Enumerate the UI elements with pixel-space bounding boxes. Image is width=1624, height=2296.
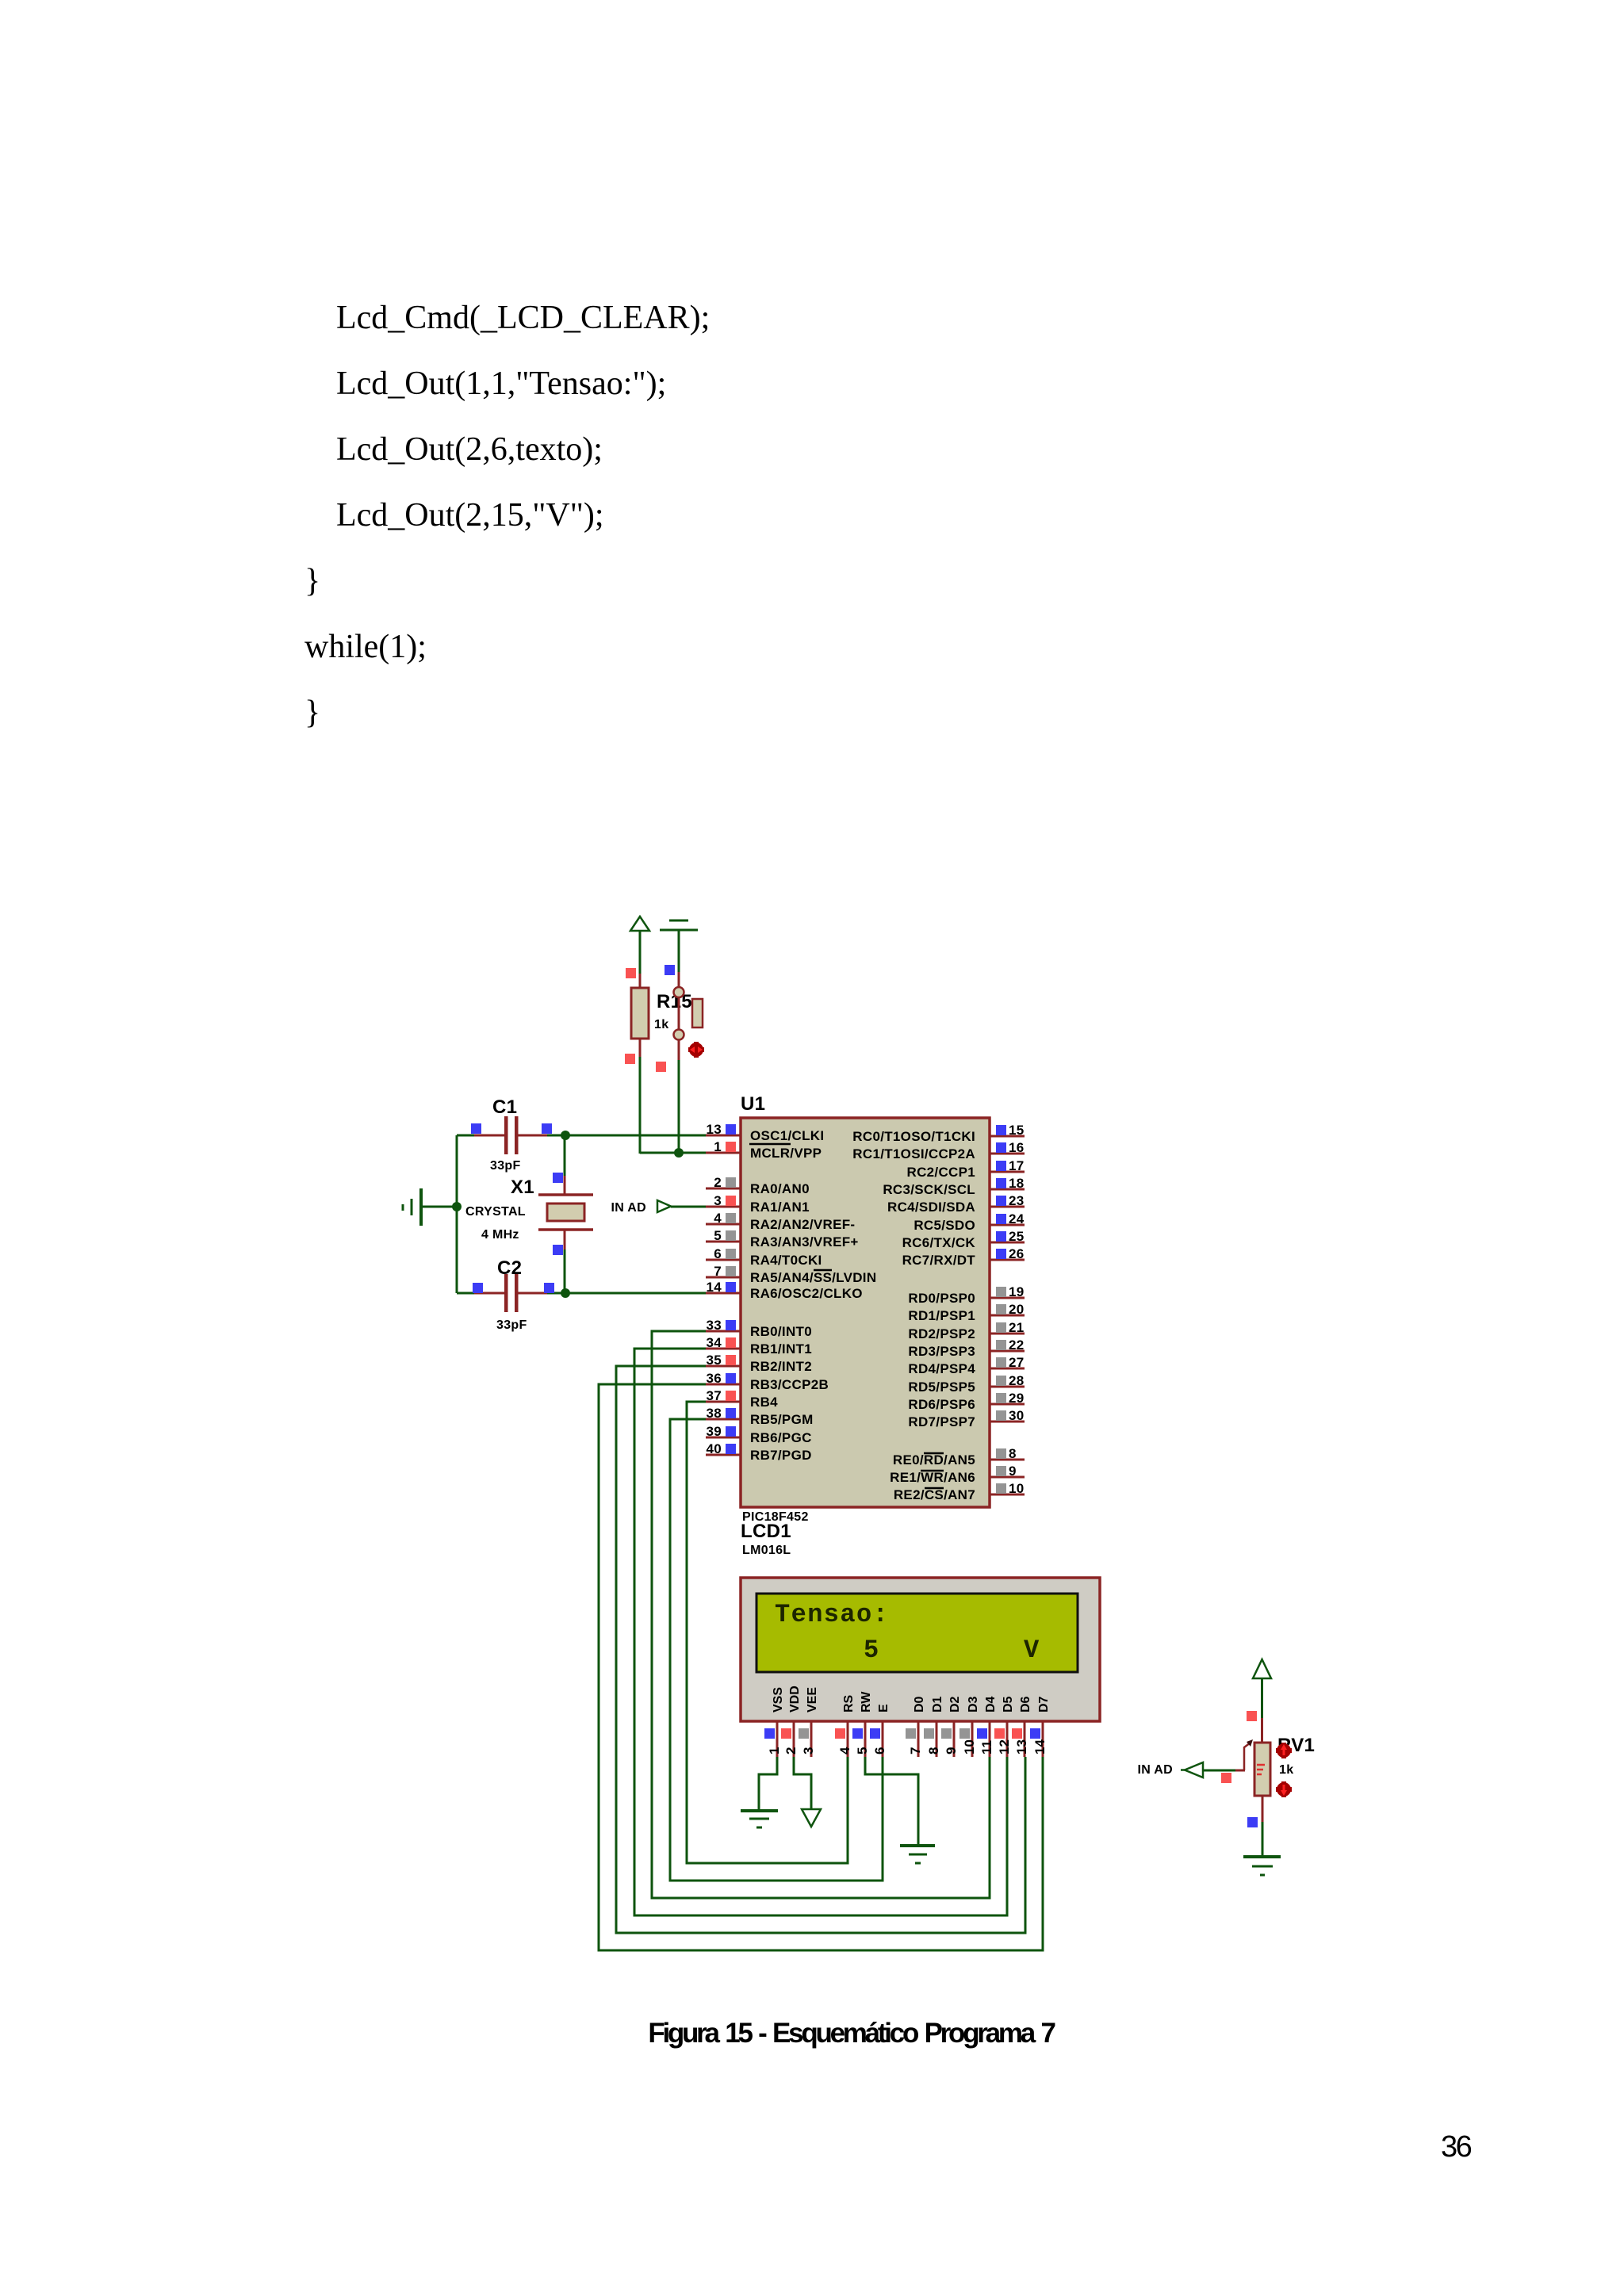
svg-text:D6: D6 <box>1019 1696 1032 1712</box>
wire OSC2 net (left rail to C2 to U1 pin 14) <box>457 1283 706 1293</box>
svg-text:RD5/PSP5: RD5/PSP5 <box>908 1380 975 1395</box>
LCD display text "5" <box>864 1636 880 1665</box>
LCD1 pin 5 (RW) <box>852 1691 873 1757</box>
LCD1 pin 14 (D7) <box>1030 1696 1051 1757</box>
svg-text:RW: RW <box>860 1691 873 1712</box>
U1 pin 20 (RD1/PSP1) <box>908 1302 1025 1323</box>
svg-text:D7: D7 <box>1037 1696 1051 1712</box>
svg-text:RA4/T0CKI: RA4/T0CKI <box>750 1253 822 1268</box>
svg-text:34: 34 <box>706 1335 722 1350</box>
label CRYSTAL <box>465 1205 526 1219</box>
svg-text:18: 18 <box>1009 1176 1025 1191</box>
svg-text:D5: D5 <box>1002 1696 1015 1712</box>
svg-text:2: 2 <box>714 1175 722 1190</box>
svg-text:RB3/CCP2B: RB3/CCP2B <box>750 1377 829 1392</box>
U1 pin 28 (RD5/PSP5) <box>908 1373 1025 1395</box>
crystal X1 <box>538 1176 593 1249</box>
svg-text:RA3/AN3/VREF+: RA3/AN3/VREF+ <box>750 1234 859 1249</box>
LCD1 pin 13 (D6) <box>1012 1696 1032 1757</box>
svg-text:29: 29 <box>1009 1391 1025 1406</box>
U1 pin 35 (RB2/INT2) <box>706 1353 812 1374</box>
svg-text:10: 10 <box>1009 1481 1025 1496</box>
svg-text:9: 9 <box>944 1747 959 1755</box>
svg-text:VSS: VSS <box>772 1687 785 1712</box>
wire ground to left rail <box>423 1206 457 1208</box>
LCD display text "V" <box>1024 1636 1040 1665</box>
svg-text:RE0/RD/AN5: RE0/RD/AN5 <box>893 1452 975 1468</box>
LCD1 pin 6 (E) <box>870 1704 891 1757</box>
power symbol +V (above RV1) <box>1253 1659 1271 1678</box>
svg-text:1k: 1k <box>1279 1763 1293 1777</box>
svg-text:20: 20 <box>1009 1302 1025 1317</box>
svg-text:33pF: 33pF <box>496 1318 527 1332</box>
svg-text:17: 17 <box>1009 1158 1025 1173</box>
svg-text:RC1/T1OSI/CCP2A: RC1/T1OSI/CCP2A <box>852 1146 975 1161</box>
svg-text:RC4/SDI/SDA: RC4/SDI/SDA <box>887 1200 975 1215</box>
wire power arrow to R15 top <box>626 931 640 978</box>
U1 pin 27 (RD4/PSP4) <box>908 1355 1025 1376</box>
wire IN AD terminal to RV1 wiper <box>1203 1770 1245 1783</box>
svg-text:5: 5 <box>714 1228 722 1243</box>
U1 pin 30 (RD7/PSP7) <box>908 1408 1025 1429</box>
svg-text:D2: D2 <box>948 1696 962 1712</box>
svg-text:RE1/WR/AN6: RE1/WR/AN6 <box>890 1470 975 1485</box>
svg-text:4 MHz: 4 MHz <box>481 1228 519 1242</box>
svg-text:RB7/PGD: RB7/PGD <box>750 1448 812 1463</box>
U1 pin 3 (RA1/AN1) <box>706 1193 810 1215</box>
LCD1 pin 8 (D1) <box>924 1696 944 1757</box>
svg-text:1: 1 <box>714 1139 722 1154</box>
svg-text:5: 5 <box>855 1747 870 1755</box>
U1 pin 22 (RD3/PSP3) <box>908 1337 1025 1359</box>
wire RS net (LCD pin4 to U1 RB4) <box>687 1402 848 1863</box>
svg-text:RC3/SCK/SCL: RC3/SCK/SCL <box>883 1182 975 1197</box>
svg-text:28: 28 <box>1009 1373 1025 1388</box>
wire left rail (C1 to C2) <box>456 1135 458 1293</box>
power rail bar symbol (above button) <box>660 920 698 930</box>
svg-text:13: 13 <box>1014 1739 1029 1755</box>
svg-text:21: 21 <box>1009 1320 1025 1335</box>
svg-text:6: 6 <box>872 1747 887 1755</box>
ground symbol (RW) <box>900 1846 935 1863</box>
wire IN AD to U1 pin 3 <box>671 1206 706 1208</box>
svg-text:3: 3 <box>714 1193 722 1208</box>
svg-text:RA5/AN4/SS/LVDIN: RA5/AN4/SS/LVDIN <box>750 1270 876 1285</box>
ground symbol (VSS) <box>741 1811 778 1827</box>
wire MCLR net to U1 pin 1 <box>640 1152 706 1154</box>
svg-text:V: V <box>1024 1636 1040 1665</box>
value 1k (R15) <box>654 1018 668 1031</box>
wire RV1 bottom to ground <box>1247 1796 1262 1857</box>
label X1 <box>511 1177 534 1198</box>
value 1k (RV1) <box>1279 1763 1293 1777</box>
LCD1 pin 1 (VSS) <box>764 1687 785 1757</box>
svg-text:4: 4 <box>714 1211 722 1226</box>
svg-text:10: 10 <box>962 1739 977 1755</box>
power symbol +V (above R15) <box>630 916 649 931</box>
svg-text:15: 15 <box>1009 1123 1025 1138</box>
U1 pin 7 (RA5/AN4/SS/LVDIN) <box>706 1264 876 1285</box>
svg-text:D4: D4 <box>984 1696 998 1712</box>
LCD1 pin 3 (VEE) <box>799 1687 819 1757</box>
pot RV1 up-adjust starburst <box>1276 1743 1292 1758</box>
svg-text:RC7/RX/DT: RC7/RX/DT <box>902 1253 976 1268</box>
svg-text:RD1/PSP1: RD1/PSP1 <box>908 1308 975 1323</box>
svg-text:RD0/PSP0: RD0/PSP0 <box>908 1291 975 1306</box>
U1 pin 37 (RB4) <box>706 1388 778 1410</box>
svg-text:RA1/AN1: RA1/AN1 <box>750 1200 810 1215</box>
svg-text:RD4/PSP4: RD4/PSP4 <box>908 1361 975 1376</box>
U1 pin 15 (RC0/T1OSO/T1CKI) <box>852 1123 1025 1144</box>
label PIC18F452 <box>742 1510 809 1524</box>
button actuator starburst <box>688 1042 704 1058</box>
wire D4 net (LCD pin11 to U1 RB0) <box>652 1331 990 1898</box>
wire button bottom to MCLR net <box>656 1060 679 1154</box>
LCD1 pin 10 (D3) <box>959 1696 980 1757</box>
svg-text:35: 35 <box>706 1353 722 1368</box>
svg-text:7: 7 <box>714 1264 722 1279</box>
potentiometer RV1 <box>1244 1739 1270 1796</box>
svg-text:IN AD: IN AD <box>611 1201 646 1215</box>
LCD1 pin 9 (D2) <box>941 1696 962 1757</box>
U1 pin 21 (RD2/PSP2) <box>908 1320 1025 1341</box>
svg-text:RC5/SDO: RC5/SDO <box>913 1218 975 1233</box>
wire VDD (LCD pin2) to power <box>794 1757 811 1810</box>
label R15 <box>657 991 692 1012</box>
svg-text:39: 39 <box>706 1424 722 1439</box>
push-button (reset) <box>674 972 703 1060</box>
label RV1 <box>1277 1735 1315 1756</box>
pot RV1 down-adjust starburst <box>1276 1781 1292 1797</box>
svg-text:X1: X1 <box>511 1177 534 1198</box>
svg-text:11: 11 <box>979 1740 994 1755</box>
junction: rail / ground <box>452 1202 462 1211</box>
U1 pin 34 (RB1/INT1) <box>706 1335 812 1357</box>
wire VSS (LCD pin1) to ground <box>759 1757 777 1811</box>
label C2 <box>497 1257 522 1279</box>
svg-text:RB5/PGM: RB5/PGM <box>750 1412 814 1427</box>
capacitor C2 <box>474 1274 547 1312</box>
svg-text:36: 36 <box>706 1371 722 1386</box>
wire X1 top stub to OSC1 <box>553 1135 565 1183</box>
label C1 <box>492 1096 517 1118</box>
svg-text:RD2/PSP2: RD2/PSP2 <box>908 1326 975 1341</box>
svg-text:3: 3 <box>801 1747 816 1755</box>
svg-text:27: 27 <box>1009 1355 1025 1370</box>
label LM016L <box>742 1544 791 1557</box>
svg-text:RB2/INT2: RB2/INT2 <box>750 1359 812 1374</box>
label IN AD (top) <box>611 1201 646 1215</box>
svg-text:RB1/INT1: RB1/INT1 <box>750 1341 812 1357</box>
U1 pin 6 (RA4/T0CKI) <box>706 1246 822 1268</box>
svg-text:RD3/PSP3: RD3/PSP3 <box>908 1344 975 1359</box>
label U1 <box>741 1093 765 1115</box>
svg-text:RA6/OSC2/CLKO: RA6/OSC2/CLKO <box>750 1286 863 1301</box>
LCD1 pin 12 (D5) <box>994 1696 1015 1757</box>
U1 pin 33 (RB0/INT0) <box>706 1318 812 1339</box>
svg-text:8: 8 <box>926 1747 941 1755</box>
svg-text:CRYSTAL: CRYSTAL <box>465 1205 526 1219</box>
IC U1 PIC18F452 body <box>741 1118 990 1507</box>
svg-text:12: 12 <box>997 1739 1012 1755</box>
U1 pin 2 (RA0/AN0) <box>706 1175 810 1196</box>
svg-text:22: 22 <box>1009 1337 1025 1353</box>
svg-text:38: 38 <box>706 1406 722 1421</box>
wire D6 net (LCD pin13 to U1 RB2) <box>616 1366 1025 1933</box>
svg-text:24: 24 <box>1009 1211 1025 1226</box>
LCD1 pin 7 (D0) <box>906 1696 926 1757</box>
svg-text:4: 4 <box>837 1747 852 1755</box>
U1 pin 1 (MCLR/VPP) <box>706 1139 822 1161</box>
svg-text:8: 8 <box>1009 1446 1017 1461</box>
svg-text:RD7/PSP7: RD7/PSP7 <box>908 1414 975 1429</box>
svg-text:6: 6 <box>714 1246 722 1261</box>
svg-text:RC6/TX/CK: RC6/TX/CK <box>902 1235 976 1250</box>
wire RW (LCD pin5) to ground <box>865 1757 918 1846</box>
junction: OSC2 / X1 bottom <box>561 1288 570 1298</box>
U1 pin 40 (RB7/PGD) <box>706 1441 812 1463</box>
svg-text:RA0/AN0: RA0/AN0 <box>750 1181 810 1196</box>
svg-text:Tensao:: Tensao: <box>775 1600 889 1629</box>
junction: OSC1 / X1 top <box>561 1131 570 1140</box>
terminal IN AD (from pot wiper) <box>1181 1762 1203 1777</box>
ground symbol (RV1) <box>1243 1857 1281 1875</box>
value 33pF (C1) <box>490 1159 521 1173</box>
U1 pin 39 (RB6/PGC) <box>706 1424 812 1445</box>
svg-text:RD6/PSP6: RD6/PSP6 <box>908 1397 975 1412</box>
value 33pF (C2) <box>496 1318 527 1332</box>
U1 pin 4 (RA2/AN2/VREF-) <box>706 1211 855 1232</box>
svg-text:IN AD: IN AD <box>1138 1763 1173 1777</box>
wire D5 net (LCD pin12 to U1 RB1) <box>634 1349 1007 1915</box>
LCD1 pin 11 (D4) <box>977 1696 998 1757</box>
svg-text:U1: U1 <box>741 1093 765 1115</box>
U1 pin 13 (OSC1/CLKI) <box>706 1122 824 1143</box>
svg-text:OSC1/CLKI: OSC1/CLKI <box>750 1128 824 1143</box>
ground symbol (crystal rail) <box>403 1188 421 1226</box>
svg-text:23: 23 <box>1009 1193 1025 1208</box>
LCD display text "Tensao:" <box>775 1600 889 1629</box>
junction: MCLR node <box>674 1148 684 1158</box>
svg-text:14: 14 <box>706 1280 722 1295</box>
svg-text:1k: 1k <box>654 1018 668 1031</box>
svg-text:RB4: RB4 <box>750 1395 778 1410</box>
svg-text:13: 13 <box>706 1122 722 1137</box>
value 4 MHz (X1) <box>481 1228 519 1242</box>
svg-text:VDD: VDD <box>788 1686 802 1712</box>
svg-text:1: 1 <box>767 1747 782 1755</box>
svg-text:VEE: VEE <box>806 1687 819 1712</box>
svg-text:LM016L: LM016L <box>742 1544 791 1557</box>
svg-text:30: 30 <box>1009 1408 1025 1423</box>
svg-text:D0: D0 <box>913 1696 926 1712</box>
wire power to RV1 top <box>1247 1678 1262 1743</box>
LCD1 pin 2 (VDD) <box>781 1686 802 1757</box>
U1 pin 14 (RA6/OSC2/CLKO) <box>706 1280 863 1301</box>
svg-text:RC0/T1OSO/T1CKI: RC0/T1OSO/T1CKI <box>852 1129 975 1144</box>
svg-text:16: 16 <box>1009 1140 1025 1155</box>
U1 pin 36 (RB3/CCP2B) <box>706 1371 829 1392</box>
U1 pin 26 (RC7/RX/DT) <box>902 1246 1025 1268</box>
resistor R15 <box>631 974 649 1057</box>
svg-text:40: 40 <box>706 1441 722 1456</box>
svg-text:33pF: 33pF <box>490 1159 521 1173</box>
U1 pin 18 (RC3/SCK/SCL) <box>883 1176 1025 1197</box>
capacitor C1 <box>474 1116 547 1154</box>
svg-text:C2: C2 <box>497 1257 522 1279</box>
U1 pin 9 (RE1/WR/AN6) <box>890 1464 1025 1485</box>
U1 pin 16 (RC1/T1OSI/CCP2A) <box>852 1140 1025 1161</box>
label LCD1 <box>741 1521 791 1542</box>
svg-text:14: 14 <box>1032 1739 1048 1755</box>
power symbol down-arrow (VDD) <box>802 1809 821 1827</box>
svg-text:RB6/PGC: RB6/PGC <box>750 1430 812 1445</box>
svg-text:RA2/AN2/VREF-: RA2/AN2/VREF- <box>750 1217 855 1232</box>
wire E net (LCD pin6 to U1 RB5) <box>670 1419 883 1881</box>
U1 pin 17 (RC2/CCP1) <box>907 1158 1025 1180</box>
svg-text:7: 7 <box>908 1747 923 1755</box>
svg-text:D3: D3 <box>967 1696 980 1712</box>
wire X1 bottom stub to OSC2 <box>553 1245 565 1293</box>
U1 pin 38 (RB5/PGM) <box>706 1406 814 1427</box>
svg-text:E: E <box>877 1704 891 1712</box>
label IN AD (pot) <box>1138 1763 1173 1777</box>
svg-text:C1: C1 <box>492 1096 517 1118</box>
svg-text:LCD1: LCD1 <box>741 1521 791 1542</box>
svg-text:RS: RS <box>842 1694 856 1712</box>
svg-text:26: 26 <box>1009 1246 1025 1261</box>
svg-text:25: 25 <box>1009 1229 1025 1244</box>
svg-text:MCLR/VPP: MCLR/VPP <box>750 1146 822 1161</box>
svg-text:5: 5 <box>864 1636 880 1665</box>
svg-text:RC2/CCP1: RC2/CCP1 <box>907 1165 975 1180</box>
LCD1 pin 4 (RS) <box>835 1694 856 1757</box>
terminal IN AD (to RA1) <box>657 1200 671 1212</box>
svg-text:19: 19 <box>1009 1284 1025 1299</box>
U1 pin 29 (RD6/PSP6) <box>908 1391 1025 1412</box>
wire OSC1 net (left rail to C1 to U1 pin 13) <box>457 1123 706 1135</box>
U1 pin 24 (RC5/SDO) <box>913 1211 1025 1233</box>
U1 pin 5 (RA3/AN3/VREF+) <box>706 1228 859 1249</box>
U1 pin 19 (RD0/PSP0) <box>908 1284 1025 1306</box>
U1 pin 23 (RC4/SDI/SDA) <box>887 1193 1025 1215</box>
U1 pin 10 (RE2/CS/AN7) <box>894 1481 1025 1502</box>
wire rail to button top <box>665 930 679 975</box>
svg-text:33: 33 <box>706 1318 722 1333</box>
svg-text:D1: D1 <box>931 1696 944 1712</box>
U1 pin 25 (RC6/TX/CK) <box>902 1229 1025 1250</box>
U1 pin 8 (RE0/RD/AN5) <box>893 1446 1025 1468</box>
svg-text:RB0/INT0: RB0/INT0 <box>750 1324 812 1339</box>
svg-text:2: 2 <box>783 1747 799 1755</box>
LCD module LCD1 (LM016L) body <box>741 1578 1100 1721</box>
svg-text:37: 37 <box>706 1388 722 1403</box>
svg-text:9: 9 <box>1009 1464 1017 1479</box>
wire R15 bottom to MCLR net <box>625 1054 640 1154</box>
svg-text:RE2/CS/AN7: RE2/CS/AN7 <box>894 1487 975 1502</box>
wire D7 net (LCD pin14 to U1 RB3) <box>599 1384 1043 1950</box>
